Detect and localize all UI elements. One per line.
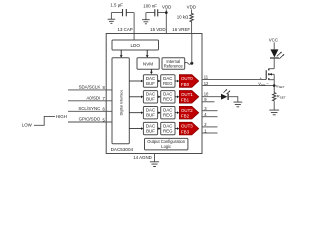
svg-text:OUT0: OUT0 (181, 76, 193, 81)
svg-text:13 CAP: 13 CAP (118, 27, 133, 32)
DAC REG block row 0 (161, 75, 175, 87)
wire FB2 pin 4 stub (202, 112, 218, 117)
svg-text:DAC53004: DAC53004 (111, 147, 134, 152)
wire DAC BUF to DAC REG row 3 (158, 127, 161, 130)
svg-text:FB0: FB0 (181, 82, 190, 87)
wire DAC BUF to DAC REG row 2 (158, 111, 161, 114)
NVM block (137, 58, 159, 69)
svg-text:FB1: FB1 (181, 98, 190, 103)
transistor Q1 NMOS (266, 69, 274, 86)
VDD supply at pin 15 (150, 4, 171, 33)
label VGS (258, 76, 269, 87)
wire OUT2 pin 3 stub (202, 106, 218, 111)
wire LED D1 to transistor drain (273, 58, 275, 69)
wire LED D2 to ground (228, 97, 238, 102)
svg-text:1.5 µF: 1.5 µF (110, 3, 123, 8)
svg-text:14 AGND: 14 AGND (133, 155, 152, 160)
wire interface to DAC BUF row 1 (129, 96, 143, 99)
wire FB1 pin 9 stub (202, 97, 215, 102)
wire NVM to DAC BUF arrow (150, 69, 153, 74)
ground for C2 (142, 13, 150, 24)
DAC BUF block row 0 (143, 75, 157, 87)
svg-text:VDD: VDD (187, 4, 196, 9)
svg-text:Reference: Reference (164, 64, 184, 69)
svg-text:BUF: BUF (146, 81, 155, 86)
svg-text:GPIO/SDO: GPIO/SDO (79, 117, 101, 122)
svg-text:VCC: VCC (269, 37, 278, 42)
Internal Reference block (162, 58, 185, 69)
svg-text:OUT1: OUT1 (181, 92, 193, 97)
wire DAC REG to OUT3 row 3 (175, 127, 179, 130)
wire interface to DAC BUF row 0 (129, 80, 143, 83)
svg-text:REG: REG (163, 97, 173, 102)
svg-text:Logic: Logic (161, 144, 171, 149)
VCC supply (269, 37, 278, 49)
capacitor C1 1.5 uF (110, 3, 134, 17)
svg-text:REG: REG (163, 81, 173, 86)
wire SCL/SYNC pin 6 (68, 106, 112, 112)
ground for C1 (108, 13, 116, 24)
wire A0/SDI pin 7 (68, 96, 112, 102)
wire GPIO/SDO pin 5 (68, 117, 112, 123)
DAC REG block row 2 (161, 107, 175, 119)
wire OUT1 pin 10 to LED D2 (202, 91, 221, 96)
LED D2 (221, 89, 230, 100)
svg-text:REG: REG (163, 113, 173, 118)
svg-text:11: 11 (204, 75, 209, 80)
svg-text:HIGH: HIGH (56, 114, 67, 119)
wire OUT0 pin 11 to gate (202, 75, 266, 80)
svg-text:VGS −: VGS − (258, 81, 269, 87)
svg-text:10: 10 (204, 91, 209, 96)
wire LDO to NVM arrow (146, 50, 149, 58)
wire FB3 pin 1 stub (202, 128, 218, 133)
output buffer OUT0/FB0 red arrow row 0 (179, 75, 198, 88)
wire DAC REG to OUT2 row 2 (175, 111, 179, 114)
svg-text:OUT2: OUT2 (181, 108, 193, 113)
wire SDA/SCLK pin 8 (68, 85, 112, 91)
switch internal reference to VREF node (185, 62, 194, 65)
svg-text:NVM: NVM (143, 62, 153, 67)
svg-text:VDD: VDD (162, 4, 171, 9)
node LOW to HIGH annotation (22, 114, 67, 128)
svg-text:A0/SDI: A0/SDI (86, 96, 100, 101)
node VREF internal wire (191, 34, 193, 64)
wire AGND pin 14 (133, 154, 154, 162)
DAC BUF block row 3 (143, 122, 157, 134)
svg-text:FB2: FB2 (181, 114, 190, 119)
svg-text:LDO: LDO (130, 43, 140, 48)
resistor R1 10 kOhm (177, 12, 194, 23)
wire FB0 pin 12 to Vset (202, 81, 274, 86)
LED D1 (270, 49, 284, 58)
svg-text:12: 12 (204, 81, 209, 86)
IC U1 DAC53004 outline (106, 34, 202, 154)
wire interface to DAC BUF row 2 (129, 111, 143, 114)
VDD supply at resistor R1 (187, 4, 196, 12)
svg-text:16 VREF: 16 VREF (172, 27, 190, 32)
svg-text:VSET: VSET (276, 83, 285, 89)
wire LDO to Digital Interface arrow (120, 50, 123, 58)
svg-text:RSET: RSET (277, 94, 286, 100)
wire DAC REG to OUT0 row 0 (175, 80, 179, 83)
wire interface to DAC BUF row 3 (129, 127, 143, 130)
Output Configuration Logic block (145, 138, 188, 150)
output buffer OUT1/FB1 red arrow row 1 (179, 91, 198, 104)
node Vset (273, 83, 285, 89)
svg-text:FB3: FB3 (181, 130, 190, 135)
wire C1 to pin 13 CAP (118, 13, 135, 40)
wire DAC BUF to DAC REG row 1 (158, 96, 161, 99)
ground for AGND (150, 162, 159, 167)
svg-text:SCL/SYNC: SCL/SYNC (78, 106, 100, 111)
wire OUT3 pin 2 stub (202, 122, 218, 127)
svg-text:BUF: BUF (146, 97, 155, 102)
wire R1 to pin 16 VREF (172, 23, 191, 33)
capacitor C2 100 nF (143, 4, 166, 17)
svg-text:LOW: LOW (22, 122, 33, 127)
DAC BUF block row 2 (143, 107, 157, 119)
svg-text:Digital Interface: Digital Interface (119, 90, 123, 116)
ground for Rset (269, 110, 279, 115)
wire Rset to ground (273, 101, 275, 110)
output buffer OUT3/FB3 red arrow row 3 (179, 122, 198, 135)
Digital Interface block (112, 58, 129, 144)
svg-text:100 nF: 100 nF (143, 4, 157, 9)
ground for LED D2 (233, 102, 242, 107)
svg-text:BUF: BUF (146, 113, 155, 118)
DAC BUF block row 1 (143, 91, 157, 103)
LDO block (112, 40, 159, 50)
svg-text:15 VDD: 15 VDD (150, 27, 165, 32)
svg-text:SDA/SCLK: SDA/SCLK (79, 85, 101, 90)
DAC REG block row 3 (161, 122, 175, 134)
wire DAC REG to OUT1 row 1 (175, 96, 179, 99)
svg-text:REG: REG (163, 129, 173, 134)
svg-text:OUT3: OUT3 (181, 124, 193, 129)
DAC REG block row 1 (161, 91, 175, 103)
resistor Rset (273, 86, 286, 102)
svg-text:10 kΩ: 10 kΩ (177, 14, 189, 19)
svg-text:BUF: BUF (146, 129, 155, 134)
output buffer OUT2/FB2 red arrow row 2 (179, 106, 198, 119)
wire DAC BUF to DAC REG row 0 (158, 80, 161, 83)
